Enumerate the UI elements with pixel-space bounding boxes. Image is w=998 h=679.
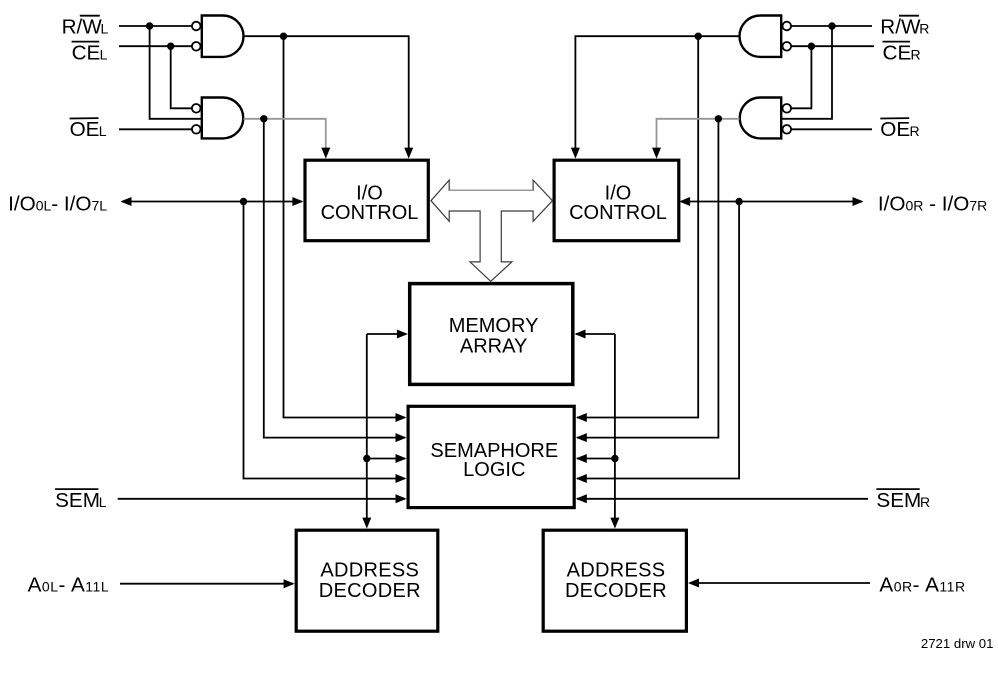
arrow into semaphore right 4 — [576, 474, 587, 483]
svg-text:MEMORY: MEMORY — [449, 315, 539, 337]
arrow I/O-L into box — [292, 197, 303, 206]
label A0R- A11R — [879, 574, 965, 597]
wire G2 output (gray) to I/O control top — [244, 119, 326, 149]
arrow into right decoder top — [610, 518, 619, 529]
wire left address bus vertical (memory/decoder/semaphore) — [366, 334, 368, 519]
label R/WL — [62, 16, 109, 39]
svg-text:R: R — [920, 494, 930, 510]
svg-text:LOGIC: LOGIC — [463, 459, 525, 481]
arrow I/O-L outward (left) — [121, 197, 132, 206]
svg-text:ADDRESS: ADDRESS — [567, 560, 666, 582]
wire G3 output to right I/O control top — [575, 36, 739, 149]
label I/O0R - I/O7R — [878, 192, 987, 215]
arrow into semaphore right 3 — [576, 454, 587, 463]
svg-text:SEM: SEM — [876, 489, 921, 512]
svg-text:L: L — [101, 21, 109, 37]
svg-text:CE: CE — [883, 42, 912, 65]
wire branch to semaphore input 3 — [367, 458, 405, 460]
arrow into right I/O control top (black) — [571, 148, 580, 159]
junction on I/O-L line — [240, 198, 247, 205]
arrow into semaphore left 5 — [396, 494, 407, 503]
block right ADDRESS DECODER — [543, 530, 686, 631]
wire into memory array right — [576, 333, 615, 335]
and-gate G4 right lower (3-input, mirrored) — [740, 98, 791, 139]
svg-text:OE: OE — [880, 118, 910, 141]
svg-text:DECODER: DECODER — [319, 580, 421, 602]
arrow into memory array right — [575, 330, 586, 339]
svg-text:2721 drw 01: 2721 drw 01 — [921, 636, 994, 651]
wire OER lead — [792, 128, 873, 130]
wire A0L address line — [120, 583, 293, 585]
wire I/O-R bus line — [681, 201, 862, 203]
svg-text:CONTROL: CONTROL — [321, 202, 419, 224]
label SEML — [55, 489, 107, 512]
wire into memory array left — [367, 333, 406, 335]
wire OEL lead — [119, 128, 192, 130]
wire I/O-R down to semaphore right 4 — [577, 202, 739, 479]
svg-text:CONTROL: CONTROL — [569, 202, 667, 224]
label OER — [880, 118, 919, 141]
junction on I/O-R line — [735, 198, 742, 205]
wire G1 output to I/O control top — [244, 36, 409, 149]
wire branch to semaphore right 3 — [577, 458, 615, 460]
wire G2 output down to semaphore input 2 — [264, 119, 405, 438]
arrow into right decoder — [688, 579, 699, 588]
label I/O0L- I/O7L — [8, 192, 107, 215]
arrow into left I/O control top (from gray wire) — [321, 148, 330, 159]
svg-text:CE: CE — [72, 42, 101, 65]
block right I/O CONTROL — [554, 160, 679, 241]
and-gate G3 right top (mirrored) — [740, 16, 792, 57]
arrow into semaphore left 1 — [396, 413, 407, 422]
label CEL — [72, 42, 108, 65]
wire G3 output down to semaphore right 1 — [577, 36, 698, 417]
wire right address bus vertical — [614, 334, 616, 519]
wire R/WR to lower gate middle input — [782, 26, 832, 119]
arrow into left decoder top — [362, 518, 371, 529]
svg-text:SEM: SEM — [55, 489, 100, 512]
svg-text:R/W: R/W — [880, 16, 921, 39]
block left ADDRESS DECODER — [296, 530, 438, 631]
arrow into left decoder — [284, 579, 295, 588]
arrow I/O-R outward (right-pointing) — [853, 197, 864, 206]
junction on G2 output — [260, 115, 267, 122]
junction on right address vertical — [611, 455, 618, 462]
wire CER lead — [792, 45, 875, 47]
hollow bidirectional arrow between I/O controls with down branch to memory — [431, 180, 553, 281]
junction on CEL — [167, 43, 174, 50]
svg-text:L: L — [100, 47, 108, 63]
junction on R/WR — [828, 22, 835, 29]
wire R/WL to lower gate middle input — [150, 26, 201, 119]
junction on R/WL — [146, 22, 153, 29]
svg-text:OE: OE — [70, 118, 100, 141]
arrow into semaphore right 5 — [576, 494, 587, 503]
label OEL — [70, 118, 107, 141]
label R/WR — [880, 16, 929, 39]
junction on CER — [808, 43, 815, 50]
svg-text:DECODER: DECODER — [565, 580, 667, 602]
arrow into semaphore left 2 — [396, 433, 407, 442]
svg-text:L: L — [99, 123, 107, 139]
arrow into left I/O control top (black) — [404, 148, 413, 159]
wire R/WR lead — [792, 25, 873, 27]
label CER — [883, 42, 921, 65]
wire CEL to lower gate top bubble — [171, 46, 192, 108]
wire SEML line — [118, 498, 405, 500]
junction on G4 output — [715, 115, 722, 122]
wire G4 output down to semaphore right 2 — [577, 119, 718, 438]
svg-text:R: R — [919, 21, 929, 37]
svg-text:R: R — [911, 47, 921, 63]
wire G1 output down to semaphore input 1 — [284, 36, 406, 417]
label A0L- A11L — [28, 574, 110, 597]
svg-text:I/O: I/O — [356, 182, 383, 204]
arrow into semaphore left 4 — [396, 474, 407, 483]
and-gate G1 left top (R/W, CE inputs inverted) — [192, 16, 244, 57]
svg-text:L: L — [99, 494, 107, 510]
wire I/O-L down to semaphore input 4 — [244, 202, 406, 479]
junction on G3 output — [695, 33, 702, 40]
svg-text:ARRAY: ARRAY — [460, 335, 527, 357]
arrow into semaphore right 1 — [576, 413, 587, 422]
junction on left address vertical — [363, 455, 370, 462]
svg-text:ADDRESS: ADDRESS — [320, 560, 419, 582]
arrow into memory array left — [397, 330, 408, 339]
svg-text:R/W: R/W — [62, 16, 103, 39]
arrow into semaphore left 3 — [396, 454, 407, 463]
block MEMORY ARRAY — [410, 284, 573, 385]
block SEMAPHORE LOGIC — [408, 406, 574, 507]
arrow into semaphore right 2 — [576, 433, 587, 442]
arrow I/O-R into box (left-pointing) — [679, 197, 690, 206]
block left I/O CONTROL — [305, 160, 428, 241]
and-gate G2 left lower (3-input) — [192, 98, 243, 139]
wire R/WL lead — [119, 25, 192, 27]
wire CER to lower gate top bubble — [792, 46, 812, 108]
wire I/O-L bus line — [122, 201, 302, 203]
svg-text:I/O: I/O — [605, 182, 632, 204]
wire SEMR line — [577, 498, 868, 500]
wire CEL lead — [119, 45, 192, 47]
svg-text:R: R — [910, 123, 920, 139]
label SEMR — [876, 489, 930, 512]
wire G4 output (gray) to right I/O control top — [657, 119, 740, 149]
wire A0R address line — [690, 582, 870, 584]
arrow into right I/O control top (from gray wire) — [652, 148, 661, 159]
junction on G1 output — [280, 33, 287, 40]
